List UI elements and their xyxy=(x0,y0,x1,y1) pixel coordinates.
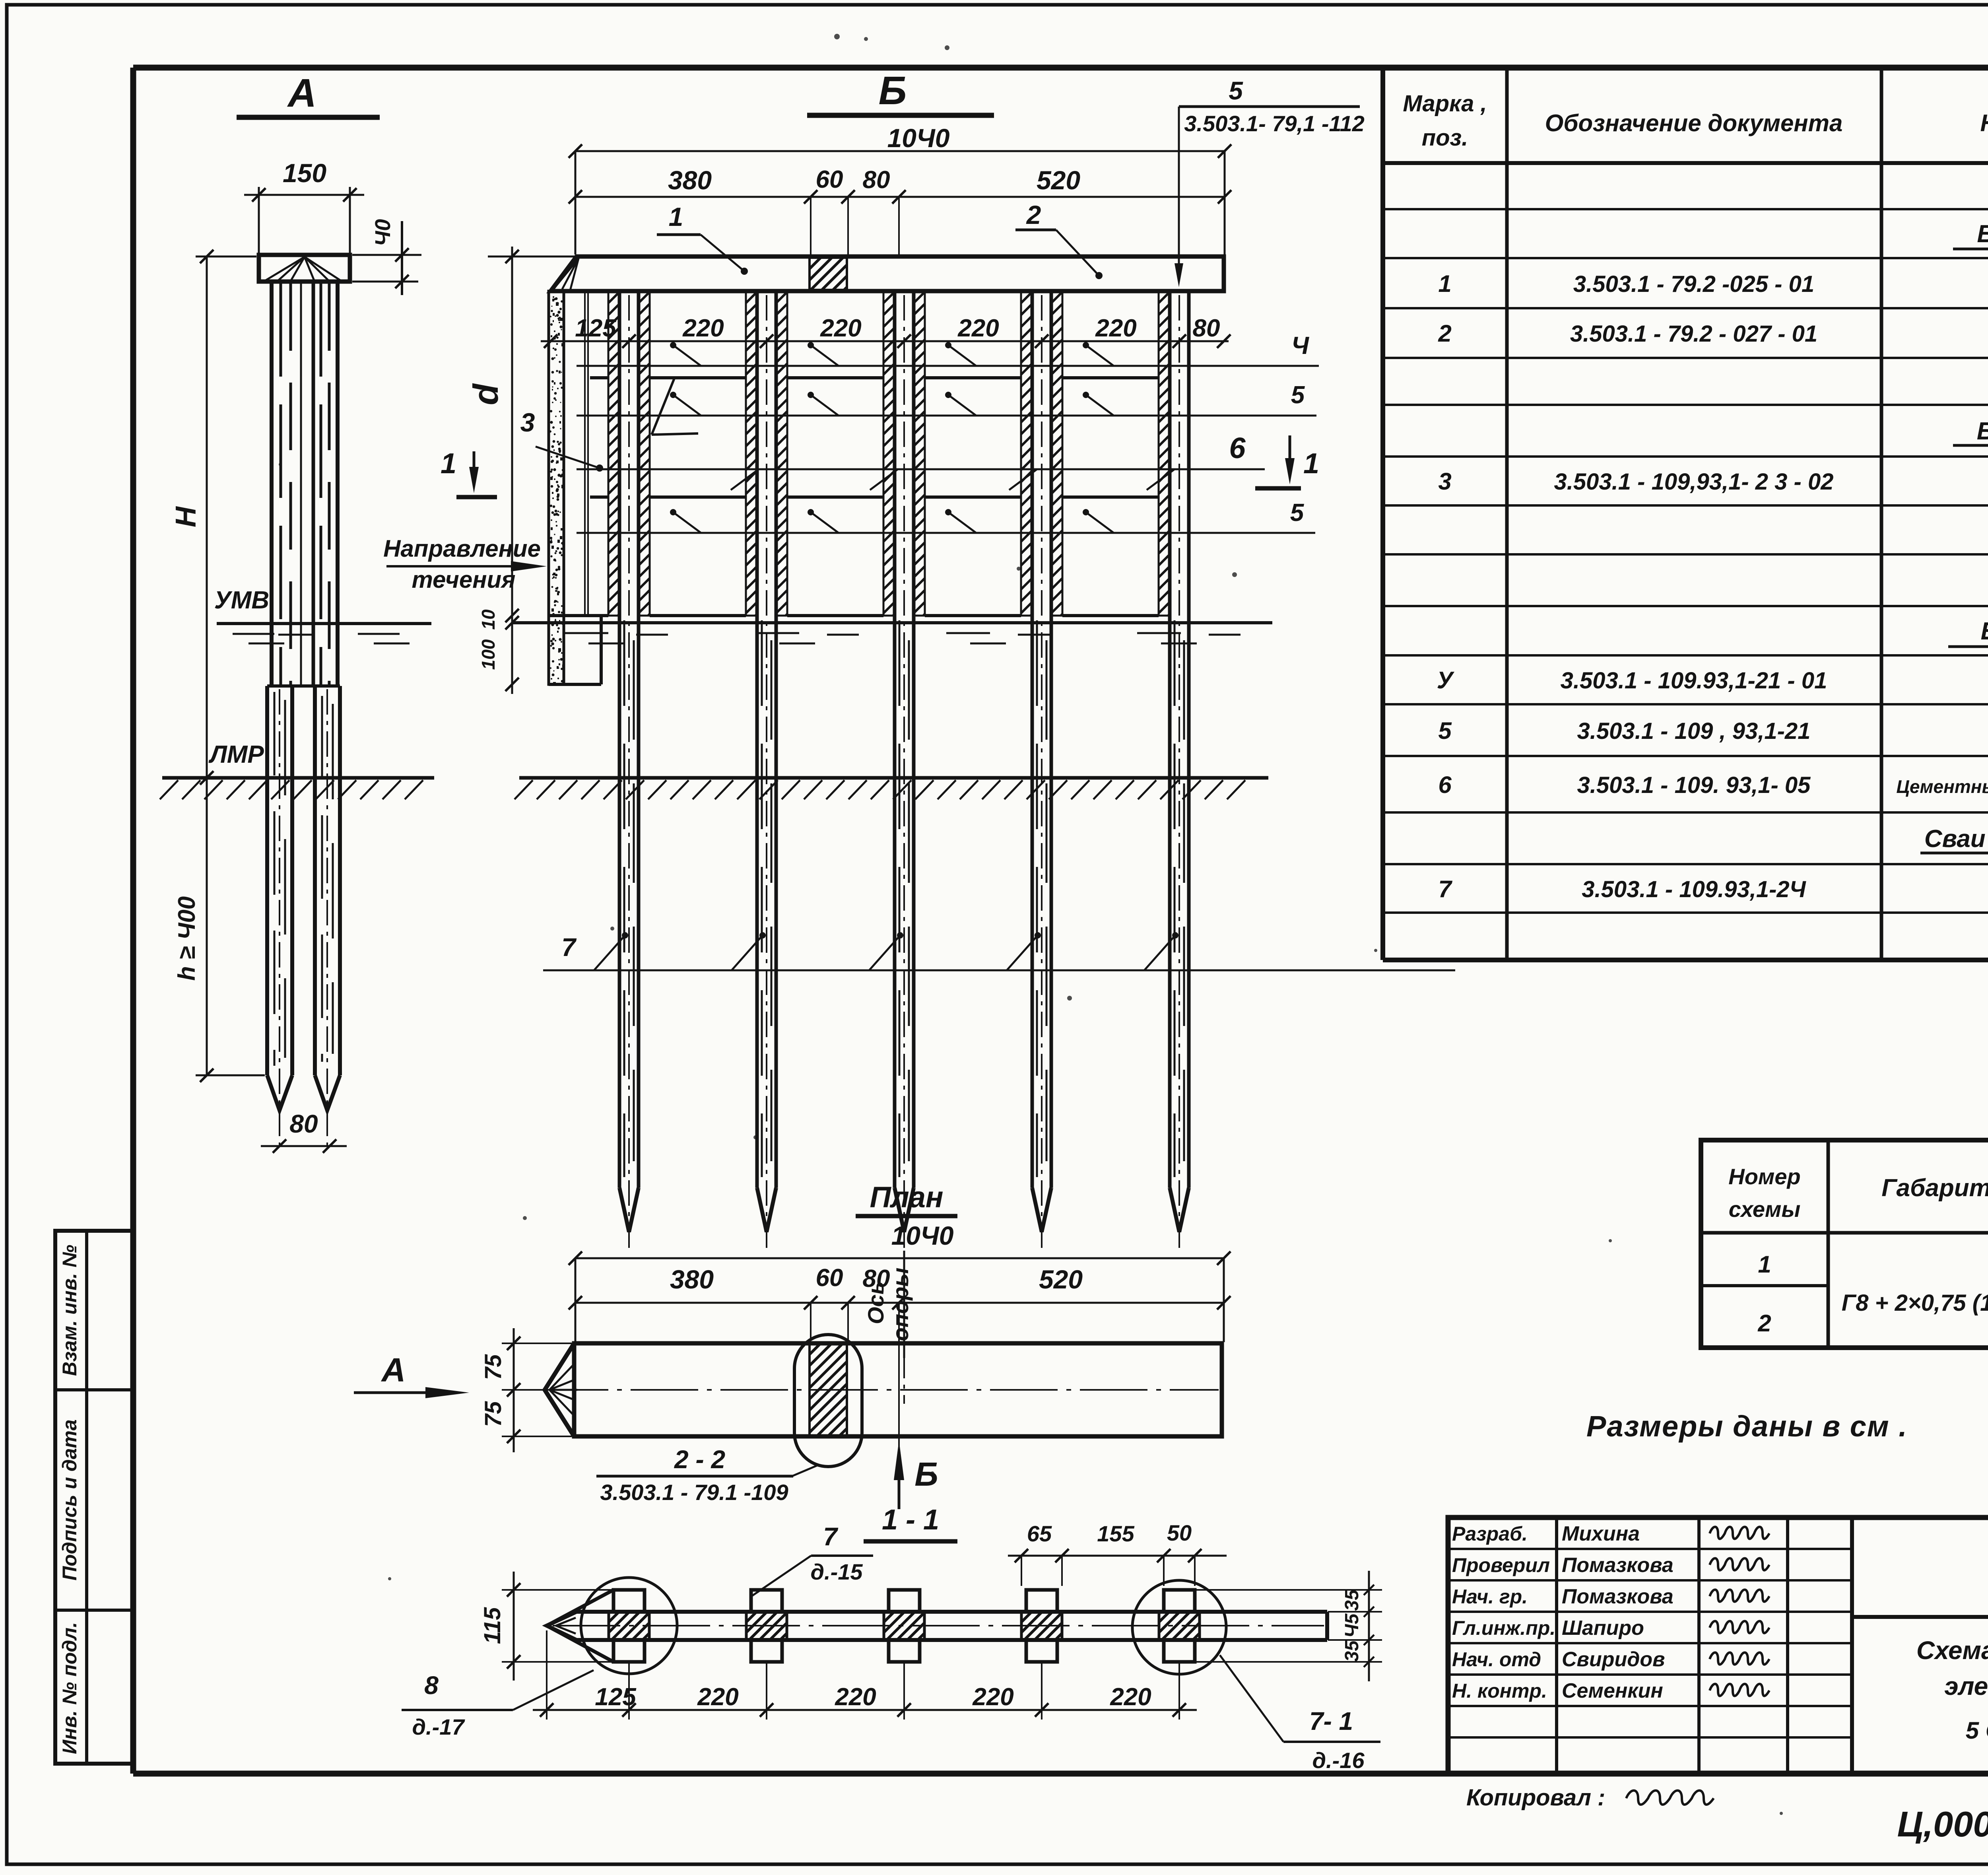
svg-text:Цементный раствор толщиной 2см: Цементный раствор толщиной 2см xyxy=(1896,776,1988,797)
scan speckles xyxy=(834,34,840,39)
svg-text:380: 380 xyxy=(668,165,712,195)
svg-text:3.503.1 - 79.2 -025 - 01: 3.503.1 - 79.2 -025 - 01 xyxy=(1573,271,1814,297)
specification table outline xyxy=(1380,68,1385,960)
svg-text:1: 1 xyxy=(1438,270,1451,297)
leader 4 xyxy=(577,365,1319,367)
leader 6 xyxy=(577,468,1265,470)
schemes table grid xyxy=(1827,1140,1830,1348)
ground hatch xyxy=(160,780,178,799)
plan axis xyxy=(541,1389,1219,1391)
svg-text:115: 115 xyxy=(480,1607,505,1644)
pile 3 axis xyxy=(903,295,905,1253)
view A cap block xyxy=(259,255,350,282)
svg-text:220: 220 xyxy=(682,315,724,342)
svg-text:А: А xyxy=(381,1351,406,1389)
svg-text:7: 7 xyxy=(1438,876,1452,902)
svg-text:380: 380 xyxy=(670,1265,714,1294)
svg-text:Номер: Номер xyxy=(1728,1164,1800,1189)
svg-text:3.503.1 - 109.93,1-2Ч: 3.503.1 - 109.93,1-2Ч xyxy=(1582,876,1806,902)
svg-text:поз.: поз. xyxy=(1422,125,1468,151)
svg-text:2: 2 xyxy=(1026,200,1041,229)
svg-text:7- 1: 7- 1 xyxy=(1309,1707,1353,1735)
section bar xyxy=(577,1610,1327,1614)
svg-text:155: 155 xyxy=(1097,1521,1134,1546)
svg-text:3.503.1 - 109.93,1-21 - 01: 3.503.1 - 109.93,1-21 - 01 xyxy=(1561,668,1827,694)
svg-text:d: d xyxy=(466,383,505,405)
svg-text:Сваи железобетонные: Сваи железобетонные xyxy=(1924,825,1988,853)
svg-text:75: 75 xyxy=(480,1401,506,1427)
svg-text:опоры: опоры xyxy=(888,1268,913,1341)
svg-text:Нач. отд: Нач. отд xyxy=(1452,1648,1541,1671)
dim 80 (pile spacing) xyxy=(261,1145,347,1147)
pile 4 inner lines xyxy=(1036,620,1038,1177)
svg-text:2: 2 xyxy=(1757,1310,1771,1337)
svg-text:1: 1 xyxy=(1303,448,1319,480)
svg-text:Размеры даны в см .: Размеры даны в см . xyxy=(1586,1410,1908,1443)
pile 2 shaft xyxy=(755,291,759,1188)
svg-text:Б: Б xyxy=(914,1455,938,1493)
water line Б xyxy=(513,621,1272,624)
svg-text:5: 5 xyxy=(1291,381,1305,409)
svg-text:Ч: Ч xyxy=(1291,332,1309,359)
svg-text:60: 60 xyxy=(816,1264,843,1292)
svg-text:Блоки стенки: Блоки стенки xyxy=(1981,618,1988,645)
svg-text:Н. контр.: Н. контр. xyxy=(1452,1680,1547,1702)
view A pile left xyxy=(265,686,269,1075)
ice-breaker rear edge lines xyxy=(584,293,586,616)
pile cross 4 xyxy=(1021,1612,1062,1640)
svg-text:1: 1 xyxy=(669,202,683,231)
section bow xyxy=(547,1612,577,1640)
svg-text:течения: течения xyxy=(412,566,515,593)
svg-text:35: 35 xyxy=(1342,1589,1363,1611)
plan hatched joint xyxy=(810,1343,847,1436)
svg-text:Блок ледореза: Блок ледореза xyxy=(1977,418,1988,445)
svg-text:6: 6 xyxy=(1229,431,1246,464)
svg-text:Ч0: Ч0 xyxy=(371,219,395,246)
pile 3 mortar bands xyxy=(883,291,895,616)
wall bottom edge xyxy=(549,614,608,617)
svg-text:Марка ,: Марка , xyxy=(1403,91,1487,117)
svg-text:Семенкин: Семенкин xyxy=(1562,1679,1663,1702)
svg-text:Блоки насадки: Блоки насадки xyxy=(1977,220,1988,248)
view A pile right xyxy=(313,686,317,1075)
schemes table outline xyxy=(1701,1140,1988,1348)
pile 3 shaft xyxy=(893,291,897,1188)
sidebar stamp boxes xyxy=(55,1231,133,1764)
svg-text:150: 150 xyxy=(283,158,326,188)
plan dims 380 60 80 520 xyxy=(575,1302,1224,1304)
svg-text:Гл.инж.пр.: Гл.инж.пр. xyxy=(1452,1617,1555,1639)
svg-text:д.-15: д.-15 xyxy=(810,1559,863,1584)
table column lines xyxy=(1505,68,1509,960)
svg-text:80: 80 xyxy=(863,1265,890,1292)
dim row 125/220x4/80 xyxy=(541,340,1229,342)
pile 4 shaft xyxy=(1031,291,1034,1188)
ice-breaker foot block xyxy=(600,616,603,684)
pile 3 inner lines xyxy=(899,620,901,1177)
svg-text:220: 220 xyxy=(1095,315,1136,342)
plan dim 1040 xyxy=(575,1257,1224,1259)
Ось опоры xyxy=(903,1269,905,1404)
svg-text:Инв. № подл.: Инв. № подл. xyxy=(58,1622,81,1754)
bottom dim row 125 220x4 xyxy=(533,1709,1197,1711)
svg-text:2: 2 xyxy=(1438,320,1451,347)
svg-text:Габарит: Габарит xyxy=(1881,1174,1988,1202)
svg-text:10: 10 xyxy=(478,609,499,630)
svg-text:3.503.1 - 109,93,1- 2 3 - 02: 3.503.1 - 109,93,1- 2 3 - 02 xyxy=(1554,469,1834,495)
svg-text:220: 220 xyxy=(972,1683,1013,1711)
detail circle at cross 1 xyxy=(581,1578,677,1674)
svg-text:План: План xyxy=(870,1181,943,1214)
svg-text:80: 80 xyxy=(289,1109,318,1138)
pile 1 inner lines xyxy=(623,620,625,1177)
svg-text:100: 100 xyxy=(478,639,499,670)
svg-text:65: 65 xyxy=(1027,1521,1052,1546)
pile 2 axis xyxy=(766,295,767,1253)
cap fan lines xyxy=(266,257,305,280)
plan body xyxy=(574,1343,1222,1436)
pile tips Б xyxy=(619,1188,639,1232)
bay joint lines xyxy=(590,376,608,379)
bar axis xyxy=(553,1625,1324,1626)
detail capsule 2-2 xyxy=(794,1335,862,1467)
svg-text:Шапиро: Шапиро xyxy=(1562,1617,1644,1640)
svg-text:Наименование: Наименование xyxy=(1980,110,1988,136)
cap (насадка) xyxy=(551,256,1224,291)
svg-text:220: 220 xyxy=(835,1683,876,1711)
svg-text:Б: Б xyxy=(879,68,907,113)
svg-text:3: 3 xyxy=(520,408,535,437)
dims 75 75 xyxy=(513,1328,515,1452)
dim 40 xyxy=(352,254,421,256)
pile 2 mortar bands xyxy=(746,291,757,616)
svg-text:5: 5 xyxy=(1438,717,1452,744)
svg-text:60: 60 xyxy=(816,166,843,193)
svg-text:5: 5 xyxy=(1290,499,1305,527)
svg-text:80: 80 xyxy=(863,166,890,194)
svg-text:220: 220 xyxy=(957,315,999,342)
pile 1 mortar bands xyxy=(608,291,619,616)
detail circle at cross 5 xyxy=(1132,1580,1226,1674)
dim 115 xyxy=(513,1572,515,1681)
svg-text:50: 50 xyxy=(1167,1520,1192,1545)
svg-text:10Ч0: 10Ч0 xyxy=(887,123,950,153)
ice-breaker speckled edge xyxy=(549,291,564,684)
svg-text:Подпись и дата: Подпись и дата xyxy=(58,1419,81,1580)
svg-text:220: 220 xyxy=(1110,1683,1151,1711)
svg-text:Копировал :: Копировал : xyxy=(1466,1785,1605,1811)
cap left fan xyxy=(555,258,579,287)
svg-text:Свиридов: Свиридов xyxy=(1562,1648,1665,1671)
svg-text:80: 80 xyxy=(1193,315,1220,342)
svg-text:д.-17: д.-17 xyxy=(412,1714,465,1739)
pile cross 5 xyxy=(1159,1612,1200,1640)
svg-text:7: 7 xyxy=(823,1522,839,1551)
svg-text:3.503.1 - 79.2 - 027 - 01: 3.503.1 - 79.2 - 027 - 01 xyxy=(1570,321,1817,347)
dims 65 155 50 xyxy=(1008,1555,1227,1557)
svg-text:3.503.1 - 109. 93,1- 05: 3.503.1 - 109. 93,1- 05 xyxy=(1577,772,1811,798)
signatures squiggles xyxy=(1710,1527,1769,1539)
svg-text:Михина: Михина xyxy=(1562,1522,1640,1545)
svg-text:Помазкова: Помазкова xyxy=(1562,1585,1673,1608)
svg-text:Ц,00079: Ц,00079 xyxy=(1897,1805,1988,1844)
svg-text:схемы: схемы xyxy=(1729,1197,1801,1222)
svg-text:Н: Н xyxy=(170,506,202,527)
svg-text:д.-16: д.-16 xyxy=(1312,1748,1365,1773)
svg-text:3.503.1 - 109 , 93,1-21: 3.503.1 - 109 , 93,1-21 xyxy=(1577,718,1811,744)
svg-text:1: 1 xyxy=(441,448,456,480)
svg-text:Схема расположения: Схема расположения xyxy=(1916,1636,1988,1665)
svg-text:10Ч0: 10Ч0 xyxy=(891,1221,954,1250)
drawing inner frame xyxy=(133,65,1988,71)
svg-text:8: 8 xyxy=(424,1671,439,1700)
svg-text:220: 220 xyxy=(697,1683,738,1711)
svg-text:ЛМР: ЛМР xyxy=(208,741,264,768)
svg-text:75: 75 xyxy=(480,1354,506,1380)
plan bow xyxy=(545,1343,574,1436)
pile 1 shaft xyxy=(618,291,621,1188)
svg-text:А: А xyxy=(287,71,316,115)
svg-text:У: У xyxy=(1437,667,1455,694)
pile 1 axis xyxy=(628,295,630,1253)
ground line Б xyxy=(519,776,1268,780)
dims 380 60 80 520 xyxy=(575,196,1225,198)
svg-text:Обозначение документа: Обозначение документа xyxy=(1545,110,1843,136)
svg-text:220: 220 xyxy=(820,315,861,342)
svg-text:35: 35 xyxy=(1342,1640,1363,1662)
pile 4 mortar bands xyxy=(1021,291,1032,616)
svg-text:3: 3 xyxy=(1438,468,1451,495)
leader 5 upper xyxy=(577,415,1316,417)
svg-text:125: 125 xyxy=(575,315,617,342)
dims 35 45 35 xyxy=(1368,1571,1370,1681)
svg-text:Взам. инв. №: Взам. инв. № xyxy=(58,1245,81,1376)
svg-text:5 ОП 10Ч. 1: 5 ОП 10Ч. 1 xyxy=(1966,1717,1988,1744)
title block outline xyxy=(1448,1517,1988,1774)
svg-text:1: 1 xyxy=(1758,1251,1771,1278)
svg-text:Ч5: Ч5 xyxy=(1342,1613,1363,1638)
svg-text:элементов опор: элементов опор xyxy=(1944,1672,1988,1700)
svg-text:h ≥ Ч00: h ≥ Ч00 xyxy=(173,896,200,981)
svg-text:Помазкова: Помазкова xyxy=(1562,1554,1673,1577)
leader elbows xyxy=(673,345,701,366)
pile 5 axis xyxy=(1178,295,1180,1253)
leader 5 lower xyxy=(577,532,1315,534)
pile 5 inner lines xyxy=(1174,620,1176,1177)
pile 2 inner lines xyxy=(761,620,763,1177)
signature grid xyxy=(1555,1517,1558,1774)
pile 4 axis xyxy=(1041,295,1043,1253)
view A pile bundle xyxy=(270,282,274,686)
cap hatched joint 60 xyxy=(810,258,847,290)
pile 5 shaft xyxy=(1168,291,1172,1188)
svg-text:2 - 2: 2 - 2 xyxy=(674,1445,725,1474)
svg-text:125: 125 xyxy=(595,1683,637,1711)
svg-text:6: 6 xyxy=(1438,771,1452,798)
pile cross 2 xyxy=(746,1612,787,1640)
dim h>=400 xyxy=(206,778,208,1075)
svg-text:Нач. гр.: Нач. гр. xyxy=(1452,1585,1528,1608)
pile cross 3 xyxy=(884,1612,924,1640)
pile cross 1 xyxy=(609,1612,649,1640)
svg-text:3.503.1 - 79.1 -109: 3.503.1 - 79.1 -109 xyxy=(600,1480,788,1505)
svg-text:1 - 1: 1 - 1 xyxy=(882,1504,939,1536)
label 6 flag xyxy=(652,377,675,435)
svg-text:7: 7 xyxy=(561,933,577,962)
table row lines xyxy=(1383,208,1988,210)
svg-text:5: 5 xyxy=(1229,76,1243,105)
pile 5 mortar bands xyxy=(1159,291,1170,616)
dim d (wall height) xyxy=(488,256,577,258)
title block right grid xyxy=(1852,1615,1988,1619)
svg-text:Разраб.: Разраб. xyxy=(1452,1523,1528,1545)
svg-text:520: 520 xyxy=(1039,1265,1083,1294)
dim 150 xyxy=(258,187,260,253)
dim 1040 xyxy=(575,150,1225,152)
svg-text:Проверил: Проверил xyxy=(1452,1554,1550,1576)
svg-text:3.503.1- 79,1 -112: 3.503.1- 79,1 -112 xyxy=(1184,111,1365,136)
dim H xyxy=(206,256,208,778)
svg-text:Г8 + 2×0,75 (1,50): Г8 + 2×0,75 (1,50) xyxy=(1842,1290,1988,1316)
svg-text:520: 520 xyxy=(1037,165,1080,195)
svg-text:УМВ: УМВ xyxy=(214,587,269,614)
svg-text:Направление: Направление xyxy=(383,535,541,562)
